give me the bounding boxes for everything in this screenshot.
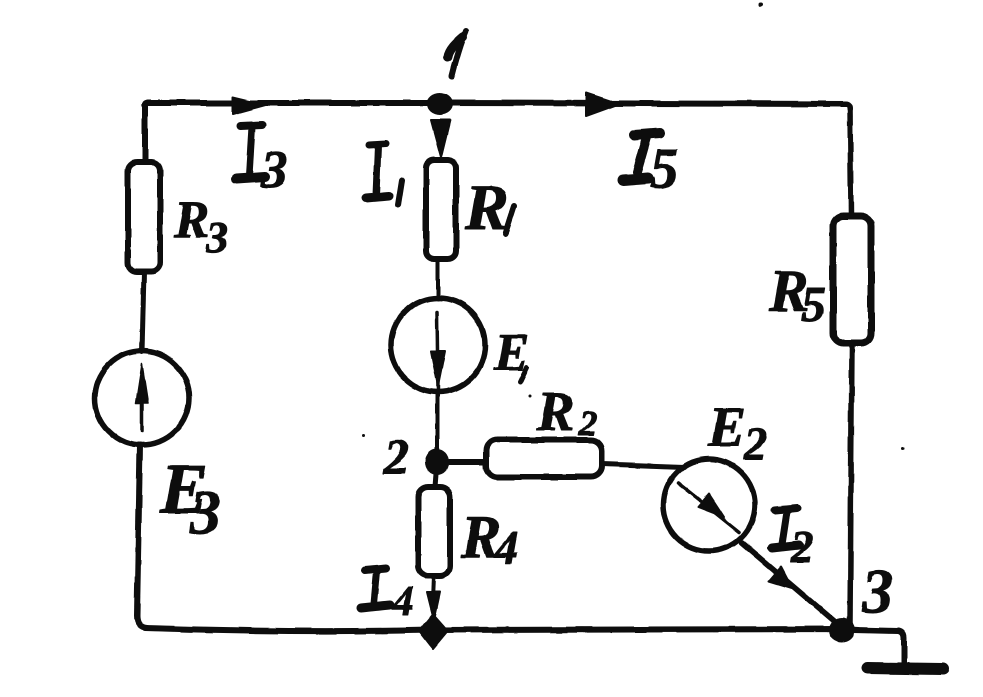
wire R5 to node 3 [850,343,852,624]
wire node 2 to R2 [449,459,486,465]
scan specks [362,434,365,437]
label I1 [366,144,402,205]
wire E3 to bottom-left corner [137,445,147,628]
svg-text:4: 4 [494,522,519,574]
wire R4 to bottom node with arrow I4 [433,576,434,600]
svg-text:3: 3 [260,141,288,199]
wire R2 to E2 [602,464,684,467]
resistor R5 [833,216,871,343]
svg-text:3: 3 [861,558,893,626]
wire top-right corner to R5 [850,106,851,216]
wire top-left corner to R3 [142,106,148,162]
label I4 [361,568,390,608]
svg-text:4: 4 [392,579,414,625]
svg-text:2: 2 [790,522,814,572]
resistor R4 [418,487,450,576]
ground [854,630,904,663]
wire R1 to E1 [436,259,440,299]
arrow I3 direction on top wire [233,97,266,114]
node 2 junction dot [425,449,449,475]
resistor R2 [486,440,602,477]
wire bottom horizontal [145,628,858,631]
resistor R1 [426,160,456,259]
svg-text:R: R [464,172,508,244]
junction dot at bottom of R4 [419,614,448,649]
label I5 [623,133,660,180]
svg-text:E: E [707,396,746,459]
wire R3 to E3 [142,272,144,352]
svg-text:2: 2 [743,419,767,469]
arrow I1 (current into R1 from node 1) [431,120,450,157]
svg-text:2: 2 [383,428,409,484]
resistor R3 [128,162,160,272]
svg-text:2: 2 [578,403,597,443]
label I2 [772,508,799,548]
node 1 junction dot [427,93,453,115]
wire top horizontal (node1 net) [144,103,850,109]
svg-text:5: 5 [801,276,826,332]
wire node 2 to R4 [435,474,436,487]
arrow I5 direction on top wire [586,93,619,116]
wire E2 to node 3 diagonal with arrow I2 [742,543,842,628]
voltage source E3 [95,351,189,445]
label I3 [236,125,265,179]
svg-text:5: 5 [650,137,679,200]
voltage source E2 [663,459,755,551]
voltage source E1 [391,298,485,392]
label node 1 [448,31,466,76]
svg-text:3: 3 [205,213,228,262]
node 3 junction dot [829,618,855,642]
svg-text:R: R [173,191,209,249]
wire E1 to node 2 [435,392,439,452]
svg-text:3: 3 [189,479,221,547]
svg-text:R: R [536,381,574,443]
